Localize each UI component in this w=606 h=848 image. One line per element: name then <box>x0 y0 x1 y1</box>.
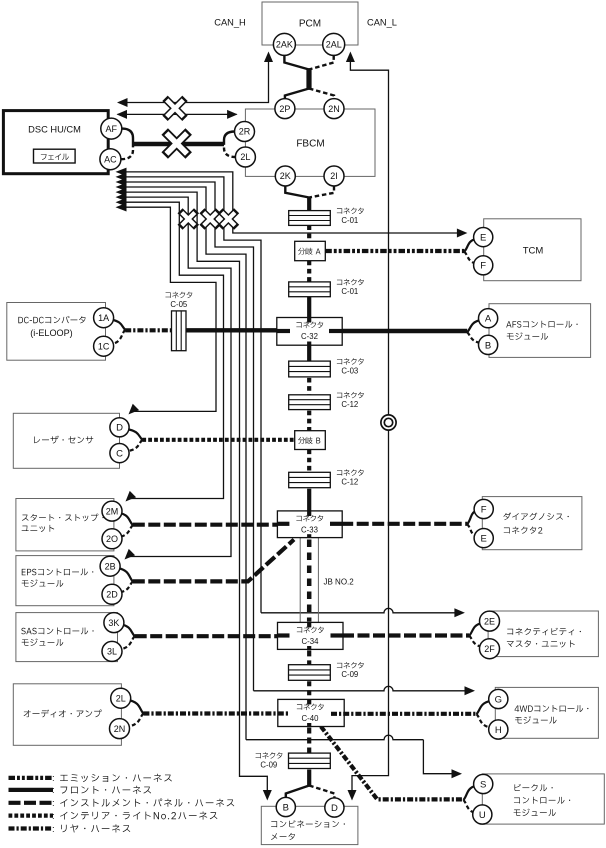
wire bus C-40 to C-09 (dashed) <box>307 728 311 754</box>
label connectivity line1 <box>507 628 581 635</box>
connector C-09 lower <box>289 753 331 768</box>
label connector C-01 lower <box>337 279 364 285</box>
pin 2D of EPS pins <box>102 584 122 604</box>
svg-text:E: E <box>481 534 487 545</box>
svg-text:2AK: 2AK <box>276 40 293 50</box>
svg-text:C-09: C-09 <box>341 670 358 679</box>
svg-text:C-05: C-05 <box>170 300 188 309</box>
connector C-01 lower <box>289 282 331 297</box>
svg-text:B: B <box>283 802 289 813</box>
svg-text:1A: 1A <box>98 313 109 323</box>
node connector symbol on CAN_L line <box>381 415 396 430</box>
label DC-DC <box>18 316 85 324</box>
label connector C-34 line1 <box>297 627 324 633</box>
pin 2B of EPS pins <box>100 556 120 576</box>
label connector C-09 lower <box>256 752 283 758</box>
wire bus branch A to C-01 (dashed) <box>307 261 311 282</box>
svg-text:C-01: C-01 <box>341 287 358 296</box>
wire audio amp junction to C-40 (rear harness dash-dot) <box>143 711 278 715</box>
svg-text:CAN_H: CAN_H <box>214 18 246 28</box>
label SAS line1 <box>21 627 93 634</box>
svg-text:AC: AC <box>104 154 117 164</box>
wire DSC line 4 to vehicle control module S arrow <box>121 187 246 740</box>
connector C-09 upper <box>289 665 331 681</box>
AFS control module box <box>489 304 591 358</box>
EPS control module box <box>16 556 114 606</box>
svg-text:C: C <box>116 449 123 460</box>
pin F of TCM pins <box>474 256 493 275</box>
wire i-ELOOP junction to C-05 (dash-dot) then C-05 to C-32 (solid front harness) <box>125 328 176 332</box>
label branch A <box>298 248 320 255</box>
vehicle control module box <box>482 774 604 824</box>
pin 2AK of PCM pins <box>273 33 295 55</box>
pin 2L of audio amp pins <box>111 688 131 708</box>
label vehicle line1 <box>514 784 552 791</box>
svg-text:E: E <box>480 233 486 244</box>
branch A box <box>295 241 326 260</box>
label connector C-12 lower <box>337 469 364 475</box>
pin D of laser sensor pins <box>110 418 129 437</box>
svg-text:2M: 2M <box>106 506 119 516</box>
connector C-32 box <box>277 318 342 346</box>
pin 2I of FBCM pins <box>324 166 344 186</box>
wire start stop unit junction to C-33 (instrument panel harness) <box>133 523 279 527</box>
wire FBCM 2K/2I merge to connector C-01 <box>285 186 309 198</box>
pin AC of DSC pins <box>100 149 121 170</box>
wire bus C-01 to C-32 (solid) <box>307 297 311 319</box>
svg-text:2R: 2R <box>239 127 251 137</box>
label diagnosis line2 <box>504 527 543 534</box>
svg-text:C-12: C-12 <box>341 478 358 487</box>
pin E of diagnosis pins <box>474 529 493 548</box>
wire bus C-32 to C-03 (solid) <box>307 344 311 361</box>
wire C-32 to AFS junction (solid front harness) <box>341 329 467 333</box>
svg-text:C-12: C-12 <box>341 400 358 409</box>
pin 2AL of PCM pins <box>323 33 345 55</box>
pin 2P of FBCM pins <box>275 99 295 119</box>
pin H of 4WD pins <box>489 720 508 739</box>
pin B of AFS pins <box>479 335 498 354</box>
legend instrument panel harness <box>9 801 54 805</box>
svg-text:G: G <box>495 694 502 705</box>
laser sensor box <box>13 413 119 468</box>
svg-text:F: F <box>480 261 486 272</box>
pin S of vehicle control pins <box>474 774 493 793</box>
wire CAN_H bus: PCM 2AK arrow down-left to DSC HU/CM arrow <box>121 59 269 103</box>
svg-text:2E: 2E <box>484 616 495 626</box>
connector C-01 upper <box>289 211 331 226</box>
wire CAN_L bus: PCM 2AL arrow down right side to combination meter D arrow <box>350 59 388 796</box>
svg-text:CAN_L: CAN_L <box>367 18 397 28</box>
pin 2N of audio amp pins <box>110 719 130 739</box>
label laser sensor <box>34 436 93 444</box>
label connector C-05 <box>165 292 192 298</box>
svg-text:U: U <box>479 810 486 821</box>
4WD control module box <box>495 687 598 738</box>
svg-text::: : <box>52 824 55 835</box>
svg-text:2B: 2B <box>105 561 116 571</box>
connector C-12 lower <box>289 472 331 487</box>
svg-text:2K: 2K <box>280 171 291 181</box>
X mark 2 on DSC bundle vertical <box>202 211 219 228</box>
pin A of AFS pins <box>479 309 498 328</box>
pin U of vehicle control pins <box>473 805 492 824</box>
svg-text:2F: 2F <box>484 644 495 654</box>
pin 1A of i-ELOOP pins <box>94 308 114 328</box>
pin C of laser sensor pins <box>110 444 129 463</box>
pin G of 4WD pins <box>489 689 508 708</box>
wire bus branch B to C-12 (dashed) <box>307 450 311 473</box>
wire DSC line 2 to connectivity master unit 2E arrow <box>121 177 261 613</box>
wire bus C-09 to C-40 (dashed) <box>307 681 311 699</box>
svg-text:C-01: C-01 <box>341 216 358 225</box>
svg-text:H: H <box>495 725 502 736</box>
label connector C-32 line1 <box>296 322 323 328</box>
label 4WD line2 <box>515 716 557 723</box>
diagnosis connector 2 box <box>482 497 582 550</box>
svg-text:C-32: C-32 <box>301 332 318 341</box>
label branch B <box>298 437 320 444</box>
svg-text:PCM: PCM <box>299 19 321 30</box>
label connectivity line2 <box>507 640 575 647</box>
fail lamp box inside DSC <box>34 149 76 163</box>
wire bus C-34 to C-09 (dashed) <box>307 650 311 664</box>
svg-text::: : <box>52 773 55 784</box>
label EPS line2 <box>22 579 64 586</box>
FBCM box <box>245 109 375 176</box>
pin AF of DSC pins <box>101 118 122 139</box>
svg-text:3K: 3K <box>108 618 119 628</box>
pin 2M of start stop pins <box>102 501 122 521</box>
TCM box <box>484 219 581 281</box>
junction box JB NO.2 outline <box>300 538 318 623</box>
connector C-40 box <box>278 699 344 726</box>
wire EPS junction to C-33 diagonal (instrument panel harness) <box>133 540 294 582</box>
wire twisted pair PCM 2AK/2AL to FBCM 2P/2N <box>284 55 309 69</box>
SAS control module box <box>16 613 118 662</box>
wire DSC line 1 to TCM E arrow <box>121 172 461 233</box>
svg-text:DSC HU/CM: DSC HU/CM <box>28 124 81 134</box>
wire merge to meter B (solid) and D (dashed) <box>286 786 309 798</box>
pin 2O of start stop pins <box>102 529 122 549</box>
wire bus C-01 to branch A (dashed) <box>307 225 311 241</box>
svg-text::: : <box>52 798 55 809</box>
label connector C-03 <box>337 358 364 364</box>
svg-text:2N: 2N <box>114 724 126 734</box>
connector C-03 <box>289 361 331 377</box>
connector C-34 box <box>278 622 344 649</box>
pin 3K of SAS pins <box>104 613 124 633</box>
label audio amp <box>24 710 102 718</box>
svg-text:AF: AF <box>106 124 118 134</box>
label AFS line1 <box>506 321 577 328</box>
wire DSC line 5 to combination meter B arrow <box>121 192 267 796</box>
wire C-33 to diagnosis connector junction (instrument panel harness) <box>341 522 467 526</box>
wire bus C-12 to branch B (dashed) <box>307 411 311 431</box>
svg-text:2I: 2I <box>330 171 338 181</box>
svg-text:JB NO.2: JB NO.2 <box>324 578 355 587</box>
wire bus C-12 to C-33 (solid) <box>307 489 311 512</box>
pin 2L of FBCM pins <box>235 147 255 167</box>
label EPS line1 <box>22 568 94 575</box>
svg-text:2P: 2P <box>279 104 290 114</box>
legend emission harness <box>9 776 54 780</box>
label vehicle line2 <box>514 797 570 804</box>
label connector C-40 line1 <box>297 704 324 710</box>
label start stop line2 <box>22 525 55 532</box>
wire laser sensor junction to branch B (interior light No.2 dotted) <box>142 438 294 442</box>
PCM box <box>262 2 358 45</box>
svg-text::: : <box>52 811 55 822</box>
X mark 3 on DSC bundle vertical <box>220 211 237 228</box>
pin 1C of i-ELOOP pins <box>94 336 114 356</box>
svg-text:2O: 2O <box>106 534 118 544</box>
label SAS line2 <box>22 638 64 645</box>
svg-text:2L: 2L <box>240 152 250 162</box>
label connector C-09 upper <box>337 662 364 668</box>
svg-text:3L: 3L <box>107 647 117 657</box>
pin F of diagnosis pins <box>474 499 493 518</box>
X mark 1 on DSC bundle vertical <box>180 211 197 228</box>
wire bus C-03 to C-12 (dashed) <box>307 378 311 395</box>
connector C-12 upper <box>289 395 331 410</box>
svg-text:C-09: C-09 <box>260 760 277 769</box>
svg-text:C-40: C-40 <box>302 714 320 723</box>
svg-text:D: D <box>116 423 123 434</box>
svg-text:A: A <box>485 314 492 325</box>
label combination meter line2 <box>271 833 295 840</box>
svg-text:(i-ELOOP): (i-ELOOP) <box>30 328 72 338</box>
wire DSC line 3 to 4WD control module G arrow <box>121 182 254 691</box>
svg-text:2AL: 2AL <box>326 40 342 50</box>
legend front harness <box>9 788 54 792</box>
svg-text:F: F <box>481 504 487 515</box>
connector C-33 box <box>277 511 342 538</box>
legend interior light No.2 harness <box>9 813 54 817</box>
svg-text:2D: 2D <box>106 590 118 600</box>
pin 2N of FBCM pins <box>324 99 344 119</box>
label vehicle line3 <box>514 809 556 816</box>
pin D of combination meter pins <box>325 798 344 817</box>
audio amp box <box>13 684 121 746</box>
wire C-40 to 4WD junction (rear harness dash-dot) <box>343 712 476 716</box>
pin 2K of FBCM pins <box>275 166 295 186</box>
wire DSC line 6 to EPS control module 2B arrow <box>121 197 231 556</box>
branch B box <box>295 431 326 450</box>
wire bus C-33 to C-34 inside JB NO.2 (dashed) <box>307 540 312 622</box>
wire bus C-09 to combination meter merge <box>307 770 311 787</box>
DSC HU/CM box <box>3 111 108 174</box>
pin E of TCM pins <box>474 228 493 247</box>
combination meter box <box>261 806 358 844</box>
X mark on DSC-FBCM line <box>165 132 189 156</box>
pin B of combination meter pins <box>276 797 295 816</box>
wire double-headed arrow DSC to FBCM 2R <box>118 113 237 115</box>
label connector C-12 upper <box>337 392 364 398</box>
pin 3L of SAS pins <box>102 641 122 661</box>
connectivity master unit box <box>488 611 598 657</box>
svg-text:1C: 1C <box>98 341 110 351</box>
DC-DC converter i-ELOOP box <box>7 303 106 361</box>
svg-text:2L: 2L <box>116 693 126 703</box>
label 4WD line1 <box>515 705 589 712</box>
legend rear harness <box>9 826 54 830</box>
svg-text:S: S <box>480 779 486 790</box>
label start stop line1 <box>22 514 104 522</box>
X mark on CAN_H/2R double arrow lines <box>165 98 185 118</box>
start stop unit box <box>16 499 114 551</box>
wire branch A to TCM junction (emission harness dash-dot-dot) <box>325 249 464 253</box>
svg-text:C-03: C-03 <box>341 366 358 375</box>
svg-text::: : <box>52 785 55 796</box>
pin 2F of connectivity pins <box>480 639 500 659</box>
svg-text:C-34: C-34 <box>302 637 320 646</box>
label diagnosis line1 <box>503 513 568 521</box>
svg-text:FBCM: FBCM <box>296 139 324 150</box>
label connector C-01 upper <box>337 208 364 214</box>
connector C-05 <box>172 311 187 351</box>
label fail <box>41 154 69 160</box>
svg-text:D: D <box>331 803 338 814</box>
svg-text:TCM: TCM <box>523 246 544 257</box>
svg-text:B: B <box>485 340 491 351</box>
pin 2R of FBCM pins <box>235 122 255 142</box>
pin 2E of connectivity pins <box>480 611 500 631</box>
wire C-40 diagonal to vehicle control module junction (rear harness dash-dot) <box>321 727 464 800</box>
svg-text:C-33: C-33 <box>301 526 318 535</box>
wire DSC line 7 to start stop unit 2M arrow <box>121 202 224 498</box>
label AFS line2 <box>507 332 548 339</box>
label combination meter line1 <box>271 820 345 827</box>
wire DSC AF/AC to FBCM 2R/2L with X <box>122 129 133 144</box>
wire C-34 to connectivity master unit junction (instrument panel harness) <box>342 633 469 637</box>
label connector C-33 line1 <box>296 515 323 521</box>
svg-text:2N: 2N <box>328 104 340 114</box>
wire SAS junction to C-34 (instrument panel harness) <box>135 634 279 638</box>
wire DSC line 8 to laser sensor D arrow <box>121 207 216 411</box>
